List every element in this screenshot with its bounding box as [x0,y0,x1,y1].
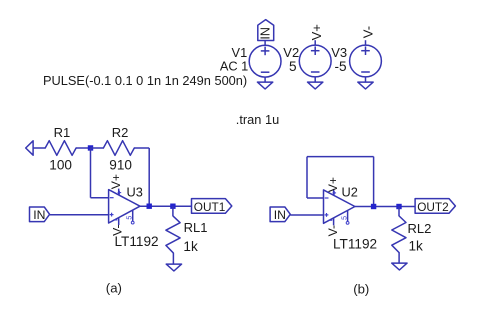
inverting input marker U2 [325,197,329,199]
wire inverting input to feedback [307,197,324,199]
svg-text:V-: V- [111,224,125,236]
svg-text:U2: U2 [342,184,358,199]
svg-text:RL1: RL1 [184,220,208,235]
svg-text:V+: V+ [109,174,123,189]
wire junction down to inverting input [90,148,92,198]
V+ pin marker U2 [333,192,337,194]
port flag IN above V1 [258,20,274,41]
wire node to RL2 [398,207,400,217]
wire node to R2 [91,147,104,149]
svg-text:.tran 1u: .tran 1u [236,112,279,127]
wire IN to non-inverting input (b) [290,214,323,216]
V- pin marker U3 [114,219,118,221]
shutdown pin open circle U2 [346,222,349,225]
op-amp triangle U2 [324,190,355,223]
V- pin marker U2 [329,219,333,221]
wire feedback down [148,148,150,206]
svg-text:IN: IN [259,27,273,40]
wire R1 to node [76,147,90,149]
svg-text:V-: V- [361,26,376,38]
junction R1/R2/feedback [88,145,93,150]
svg-text:V2: V2 [283,45,299,60]
svg-text:V-: V- [326,225,340,237]
ground at R1 left [26,141,33,155]
wire feedback left vertical [306,157,308,198]
svg-text:-5: -5 [335,59,347,74]
V+ pin stub U2 [333,189,335,196]
svg-text:100: 100 [49,158,72,173]
wire R2 right [134,147,149,149]
voltage source V2 [299,45,331,77]
svg-text:OUT1: OUT1 [194,200,225,214]
voltage source V3 [350,45,382,77]
V- pin stub U3 [118,217,120,225]
svg-text:V+: V+ [326,177,340,192]
svg-text:V3: V3 [331,45,347,60]
wire output U2 [355,206,415,208]
wire ground to R1 [33,147,45,149]
svg-text:IN: IN [33,208,45,222]
voltage source V1 [249,45,281,77]
non-inverting input marker U3 [110,214,114,216]
shutdown pin stub U2 [347,211,349,222]
svg-text:U3: U3 [127,185,143,200]
op-amp triangle U3 [109,190,140,223]
svg-text:5: 5 [127,216,134,220]
svg-text:5: 5 [289,59,297,74]
ground below RL2 [392,263,407,270]
svg-text:5: 5 [342,216,349,220]
non-inverting input marker U2 [325,214,329,216]
wire node to RL1 [172,206,174,216]
svg-text:1k: 1k [409,238,424,253]
wire feedback top [307,156,374,158]
wire output U3 [140,205,192,207]
wire feedback right vertical [373,157,375,207]
wire RL2 to ground [398,253,400,263]
inverting input marker U3 [110,197,114,199]
svg-text:R1: R1 [54,125,71,140]
port IN (b) [270,207,290,222]
svg-text:1k: 1k [183,239,198,254]
svg-text:R2: R2 [112,125,129,140]
V+ pin marker U3 [118,192,122,194]
ground below V1 [257,82,272,89]
junction output/feedback (b) [371,204,376,209]
svg-text:910: 910 [109,158,132,173]
V+ pin stub U3 [118,189,120,196]
ground below V2 [308,82,323,89]
V- pin stub U2 [333,218,335,226]
shutdown pin open circle U3 [131,221,134,224]
resistor R2 [103,141,134,156]
port OUT1 [192,199,232,214]
port IN (a) [30,207,50,222]
wire RL1 to ground [172,253,174,264]
ground below RL1 [166,264,181,271]
resistor RL1 [166,216,180,253]
svg-text:OUT2: OUT2 [417,200,448,214]
svg-text:IN: IN [274,208,286,222]
svg-text:LT1192: LT1192 [333,236,377,251]
svg-text:PULSE(-0.1 0.1 0 1n 1n 249n 50: PULSE(-0.1 0.1 0 1n 1n 249n 500n) [43,73,247,88]
junction output/RL2 [396,204,401,209]
svg-text:(a): (a) [106,281,122,296]
svg-text:AC 1: AC 1 [220,58,248,73]
junction output/RL1 [170,204,175,209]
wire IN to non-inverting input [50,214,109,216]
resistor R1 [45,141,76,156]
junction output/feedback (a) [147,204,152,209]
port OUT2 [415,199,455,214]
resistor RL2 [392,216,406,253]
svg-text:(b): (b) [353,282,369,297]
svg-text:V+: V+ [309,24,324,40]
shutdown pin stub U3 [132,210,134,221]
svg-text:RL2: RL2 [408,221,432,236]
ground below V3 [358,82,373,89]
